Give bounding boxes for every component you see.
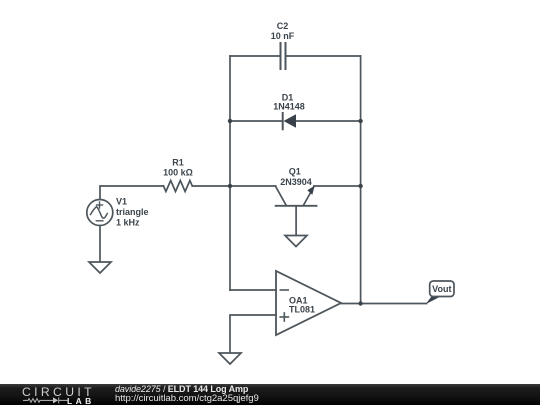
capacitor C2	[281, 43, 286, 69]
svg-text:TL081: TL081	[289, 305, 315, 315]
CircuitLab logo waveform glyph	[23, 396, 68, 405]
svg-text:C2: C2	[277, 21, 289, 31]
op-amp OA1	[276, 271, 341, 335]
footer url line 2	[115, 393, 259, 404]
CircuitLab logo CIRCUIT	[22, 385, 95, 399]
voltage source V1	[87, 200, 113, 226]
wire inverting input	[230, 289, 276, 291]
wire V1 top to R1	[100, 186, 164, 199]
diode D1	[283, 113, 296, 129]
ground (V1)	[89, 262, 111, 273]
op-amp minus symbol	[280, 289, 288, 291]
resistor R1	[164, 181, 193, 192]
svg-text:triangle: triangle	[116, 207, 149, 217]
ground (op-amp non-inverting input)	[219, 353, 241, 364]
svg-text:V1: V1	[116, 197, 127, 207]
wire top-left (node A to C2 left plate)	[230, 55, 280, 57]
junction node A-R1	[228, 184, 232, 188]
svg-text:10 nF: 10 nF	[271, 31, 295, 41]
svg-text:R1: R1	[172, 158, 184, 168]
wire left vertical (node A: C2/D1/R1 to op-amp inverting input)	[229, 56, 231, 290]
wire D1 left	[230, 120, 282, 122]
svg-text:Q1: Q1	[289, 167, 301, 177]
wire V1 to ground	[99, 226, 101, 262]
junction node B-output	[358, 301, 362, 305]
transistor Q1	[276, 186, 317, 236]
wire D1 right	[296, 120, 361, 122]
Vout flag box	[430, 281, 454, 297]
junction node B-Q1 emitter	[358, 184, 362, 188]
junction node B-D1	[358, 119, 362, 123]
wire top-right (C2 right plate to node B)	[286, 55, 361, 57]
svg-text:2N3904: 2N3904	[280, 177, 312, 187]
svg-text:100 kΩ: 100 kΩ	[163, 168, 193, 178]
wire right vertical (node B: C2/D1/Q1 emitter to output)	[360, 56, 362, 304]
svg-text:1 kHz: 1 kHz	[116, 218, 140, 228]
wire R1 to Q1 collector	[193, 185, 276, 187]
svg-text:Vout: Vout	[432, 284, 451, 294]
Vout flag pointer	[426, 297, 441, 305]
svg-text:1N4148: 1N4148	[273, 101, 305, 111]
wire output (op-amp to Vout)	[341, 303, 427, 305]
wire Q1 emitter to node B	[314, 185, 361, 187]
CircuitLab logo LAB	[67, 396, 95, 405]
junction node A-D1	[228, 119, 232, 123]
op-amp plus symbol	[280, 313, 288, 321]
wire non-inverting input	[230, 315, 276, 353]
footer attribution line 1	[115, 384, 248, 394]
ground (Q1 base)	[285, 236, 307, 247]
footer bar	[0, 384, 540, 405]
